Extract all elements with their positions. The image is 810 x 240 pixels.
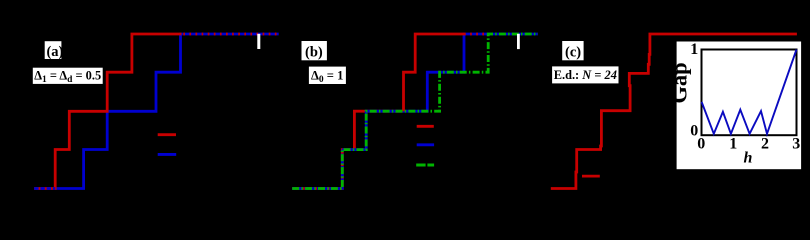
inset axes frame: [702, 50, 797, 136]
svg-text:E.d.: N = 24: E.d.: N = 24: [554, 68, 617, 82]
svg-text:h: h: [744, 150, 753, 167]
panel (a) blue magnetization curve: [55, 34, 279, 189]
svg-text:0: 0: [697, 136, 705, 153]
panel (b) white saturation field marker: [517, 34, 520, 49]
panel (b) legend red line: [417, 125, 434, 128]
panel (b) green dash-dot curve: [292, 34, 538, 189]
panel (a) label box delta1=deltad=0.5: [33, 68, 103, 84]
inset blue gap curve: [702, 50, 797, 134]
panel (b) red curve lower base: [292, 111, 403, 188]
svg-text:(b): (b): [305, 45, 323, 61]
svg-text:1: 1: [729, 136, 737, 153]
panel (a) label box (a): [45, 41, 62, 59]
panel (c) red detached small plateau: [582, 175, 600, 178]
svg-text:(c): (c): [565, 45, 581, 61]
panel (b) legend green dashes: [416, 164, 434, 167]
svg-text:2: 2: [761, 136, 769, 153]
svg-text:1: 1: [690, 41, 698, 58]
svg-text:Gap: Gap: [667, 62, 692, 103]
svg-text:(a): (a): [46, 44, 63, 60]
panel (b) blue curve solid: [342, 34, 538, 150]
panel (b) label box (b): [302, 41, 327, 60]
panel (a) legend red line: [158, 133, 176, 136]
panel (a) blue dashed overlay where curves coincide at bottom: [34, 187, 55, 190]
inset white background: [677, 42, 802, 170]
panel (c) label box (c): [562, 41, 583, 60]
panel (a) legend blue line: [158, 153, 177, 156]
panel (a) red magnetization curve: [34, 34, 181, 189]
svg-text:3: 3: [792, 136, 800, 153]
panel (b) blue dashed overlay on shared bottom plateau: [292, 150, 342, 189]
panel (c) red E.d. staircase: [551, 34, 797, 189]
panel (c) label box E.d.: N = 24: [552, 66, 618, 83]
panel (b) red curve upper steps: [404, 34, 465, 111]
panel (a) white saturation field marker: [257, 34, 260, 49]
panel (b) label box delta0=1: [309, 67, 346, 84]
panel (b) red dashed overlay on saturation line: [464, 33, 488, 36]
panel (a) red dashed overlay where curves coincide at saturation: [183, 33, 278, 36]
panel (b) legend blue line: [417, 143, 434, 146]
